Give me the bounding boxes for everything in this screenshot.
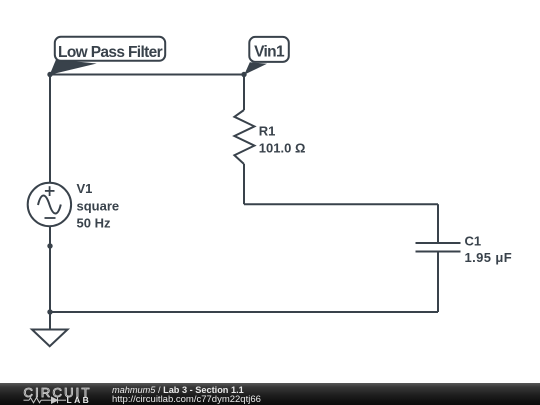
- svg-text:square: square: [77, 199, 120, 214]
- node dot below V1: [47, 243, 52, 248]
- wire horizontal to capacitor: [244, 203, 438, 205]
- wire capacitor bottom lead: [437, 252, 439, 313]
- wire V1 bottom to ground net: [49, 226, 51, 312]
- svg-text:LAB: LAB: [67, 395, 92, 405]
- svg-text:50 Hz: 50 Hz: [77, 216, 111, 231]
- voltage source V1: [28, 183, 71, 226]
- wire bottom horizontal net: [50, 311, 438, 313]
- svg-text:V1: V1: [77, 181, 93, 196]
- wire left vertical to V1: [49, 75, 51, 184]
- footer title line: [112, 385, 244, 395]
- label C1 value text: [465, 234, 513, 266]
- flag label "Vin1": [244, 37, 288, 75]
- node dot Vin1: [241, 72, 246, 77]
- svg-text:Low Pass Filter: Low Pass Filter: [58, 44, 163, 61]
- wire resistor top lead: [243, 75, 245, 111]
- capacitor C1: [416, 243, 461, 252]
- svg-text:C1: C1: [465, 234, 482, 249]
- wire capacitor top lead: [437, 204, 439, 243]
- label V1 value text: [77, 181, 120, 231]
- svg-text:1.95 μF: 1.95 μF: [465, 250, 513, 265]
- ground: [32, 312, 68, 346]
- wire top horizontal net: [50, 74, 244, 76]
- label R1 value text: [259, 124, 306, 156]
- wire resistor bottom lead: [243, 164, 245, 204]
- CircuitLab logo: [0, 383, 100, 405]
- node dot ground junction: [47, 309, 52, 314]
- footer bar: [0, 383, 540, 405]
- node dot top-left (Low Pass Filter net): [47, 72, 52, 77]
- svg-text:101.0 Ω: 101.0 Ω: [259, 141, 306, 156]
- footer url line: [112, 395, 261, 405]
- svg-text:R1: R1: [259, 124, 276, 139]
- resistor R1: [234, 110, 254, 164]
- svg-text:Vin1: Vin1: [254, 44, 285, 61]
- flag label "Low Pass Filter": [50, 37, 166, 75]
